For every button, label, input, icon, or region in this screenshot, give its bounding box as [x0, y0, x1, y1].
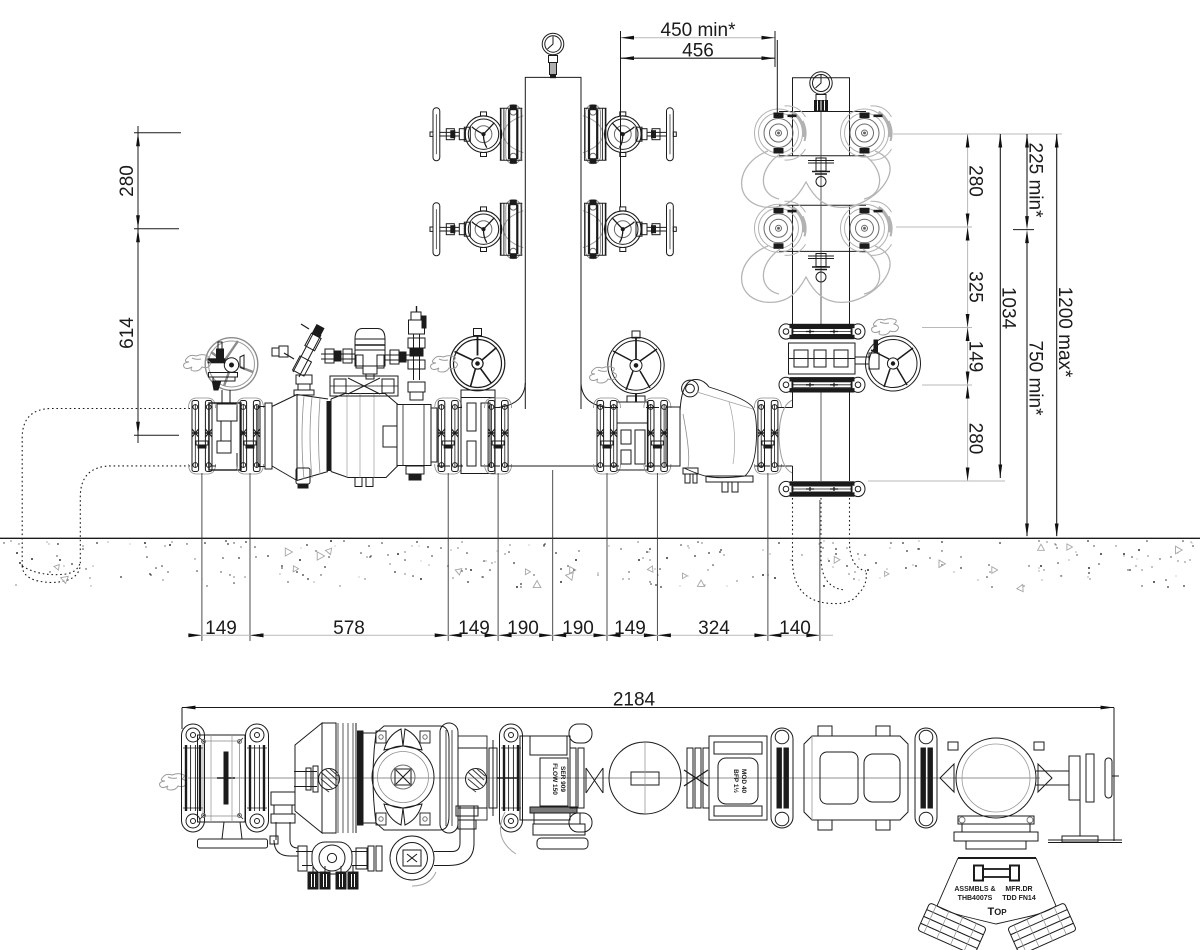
standpipe (right vertical assembly) shell [779, 111, 866, 481]
dimension 2184 (plan overall) [182, 690, 1114, 842]
right dimension 280 (bottom) [965, 385, 986, 481]
center riser pipe [525, 77, 581, 409]
svg-text:280: 280 [117, 165, 138, 197]
svg-text:MFR.DR: MFR.DR [1005, 886, 1032, 893]
svg-text:280: 280 [965, 165, 986, 197]
standpipe gate valve V4 body [789, 343, 856, 374]
bottom dimension 578 [250, 618, 448, 639]
plan tee with union stack and elbow down (sense line) [270, 792, 298, 856]
svg-text:190: 190 [507, 618, 539, 639]
riser base bell right [581, 383, 607, 408]
left dimension 280 (vertical) [117, 126, 181, 443]
ground stipple triangles [53, 544, 1182, 592]
dimension 450 min* (top) [621, 20, 776, 41]
standpipe coupling VC3 [779, 481, 865, 496]
svg-text:456: 456 [682, 41, 714, 62]
backflow preventer body (RP device) [258, 394, 437, 489]
svg-text:2184: 2184 [613, 690, 656, 711]
hose cap H4 [841, 201, 892, 255]
plan RP outlet flange disc [440, 723, 458, 833]
svg-text:225 min*: 225 min* [1025, 143, 1046, 219]
svg-text:324: 324 [698, 618, 730, 639]
main line grooved coupling C7 [754, 398, 781, 474]
OS&Y valve V2 handwheel [450, 329, 505, 391]
plan gate valve body [804, 726, 908, 830]
bleed valve B2 on standpipe [808, 254, 834, 283]
bottom dimension 190 (second) [553, 618, 607, 639]
ribbed pad right [1008, 903, 1077, 950]
ground stipple dots [3, 540, 1193, 588]
bleed valve B1 on standpipe [808, 158, 834, 187]
weed mark at valve V2 [431, 356, 458, 372]
plan valve B body with nameplate [709, 736, 767, 820]
bottom dimension 149 (third) [607, 618, 657, 639]
bottom dimension 149 (first) [188, 618, 263, 639]
svg-text:1034: 1034 [998, 287, 1019, 330]
dimension 456 [621, 31, 778, 207]
bottom extension lines [202, 470, 820, 641]
standpipe centerline [820, 112, 822, 481]
right extension lines (grey) [868, 134, 1062, 481]
ball valve V1 handwheel [205, 338, 258, 403]
bottom dimension 140 [768, 618, 820, 639]
hose loop row2 (grey) [742, 246, 890, 302]
plan butterfly valve circle [569, 724, 681, 832]
plan check valve body with tap [458, 736, 487, 820]
SECTION: ELEVATION VIEW [22, 33, 920, 603]
left buried approach pipe (dotted) [22, 409, 190, 583]
standpipe coupling VC1 [779, 324, 865, 339]
hose loop row1 (grey) [742, 151, 890, 207]
plan riser coupling stack [954, 816, 1038, 849]
plan valve A tray stack [500, 807, 588, 854]
main line grooved coupling C6 [644, 398, 671, 474]
plan flange stack [684, 748, 709, 808]
branch valve VB4 (lower right of riser) [583, 200, 676, 259]
main line grooved coupling C4 [485, 398, 512, 474]
plan base bracket [1048, 840, 1122, 843]
elbow into standpipe [778, 400, 793, 473]
right dimension 149 [965, 328, 986, 386]
main line grooved coupling C2 [237, 398, 264, 474]
butterfly valve V3 body [617, 402, 648, 470]
main line grooved coupling C5 [594, 398, 621, 474]
right dimension 325 [965, 227, 986, 328]
vertical trim column with unions [408, 306, 426, 400]
svg-text:450 min*: 450 min* [661, 20, 737, 41]
trim top ball valve with lever [409, 320, 425, 334]
gauge frame on standpipe [793, 78, 850, 111]
hose cap H2 [841, 106, 892, 160]
svg-text:149: 149 [458, 618, 490, 639]
svg-text:149: 149 [614, 618, 646, 639]
svg-text:ASSMBLS &: ASSMBLS & [954, 886, 995, 893]
bottom dimension 324 [657, 618, 768, 639]
SECTION: GROUND [0, 538, 1200, 591]
plan capsule flange P6 [915, 728, 937, 828]
branch valve VB3 (lower left of riser) [430, 200, 523, 259]
svg-text:140: 140 [779, 618, 811, 639]
main line grooved coupling C3 [435, 398, 462, 474]
sense line piping below plan [296, 806, 478, 889]
svg-text:TOP: TOP [987, 906, 1007, 918]
plan RP device body [295, 723, 376, 833]
riser base bell left [499, 383, 526, 408]
SECTION: PLAN VIEW [160, 723, 1122, 950]
svg-text:SER 909: SER 909 [559, 766, 566, 792]
pilot trim: water meter [355, 329, 385, 380]
plan centerline [188, 777, 1040, 779]
weed mark left of plan [160, 774, 187, 790]
main pipe under riser tee [458, 407, 659, 409]
plan capsule flange P5 [771, 728, 793, 828]
plan support skirt (pentagon) [937, 858, 1056, 924]
ball valve V1 body [209, 403, 241, 470]
plan side tap with hex nut [294, 766, 340, 792]
plan standpipe circle [940, 738, 1052, 818]
right dimension 225 min* [1013, 134, 1046, 230]
plan coupling P1 [182, 724, 205, 832]
svg-text:FLOW 150: FLOW 150 [551, 763, 558, 795]
svg-text:750 min*: 750 min* [1025, 341, 1046, 417]
standpipe coupling VC2 [779, 377, 865, 392]
svg-text:149: 149 [205, 618, 237, 639]
weed mark at valve V4 [872, 319, 899, 335]
pilot trim: angled strainer pipe [272, 324, 324, 395]
buried standpipe continuation (dotted) [793, 498, 867, 604]
ribbed pad left [918, 903, 987, 950]
plan RP dome and wings [372, 726, 449, 830]
right dimension 750 min* [1025, 230, 1046, 537]
butterfly valve V3 handwheel [608, 331, 664, 402]
plan stem, plate and handwheel edge [1036, 754, 1119, 842]
weed mark at valve V1 [184, 355, 211, 371]
skirt nameplate text [954, 886, 1035, 918]
branch valve VB2 (upper right of riser) [583, 105, 676, 164]
right dimension 1200 max* [1054, 134, 1075, 537]
svg-text:THB4007S: THB4007S [958, 895, 993, 902]
svg-text:MOD 40: MOD 40 [740, 769, 747, 794]
weed mark at valve V3 [590, 367, 617, 383]
plan ball valve V1 body [198, 735, 246, 822]
plan wafer plate [489, 740, 517, 816]
svg-text:280: 280 [965, 423, 986, 455]
branch valve VB1 (upper left of riser) [430, 105, 523, 164]
plan coupling P4 [500, 724, 523, 832]
main line grooved coupling C1 [189, 398, 216, 474]
plan ball valve support pedestal [198, 822, 268, 848]
right dimension 1034 [998, 134, 1019, 478]
svg-text:190: 190 [562, 618, 594, 639]
svg-text:325: 325 [965, 271, 986, 303]
SECTION: DIMENSIONS [117, 20, 1114, 841]
pilot block [330, 376, 398, 396]
bottom dimension 149 (second) [448, 618, 498, 639]
svg-text:578: 578 [333, 618, 365, 639]
swing check valve CV1 [666, 379, 757, 492]
right dimension 280 (top) [965, 134, 986, 481]
OS&Y valve V2 body [461, 390, 495, 474]
svg-text:614: 614 [117, 317, 138, 349]
left dimension 614 (vertical) [117, 229, 140, 435]
standpipe gate valve V4 stem and handwheel [855, 336, 921, 391]
svg-text:1200 max*: 1200 max* [1054, 287, 1075, 378]
plan valve A body with nameplate [520, 736, 570, 820]
plan flange pair with bowtie [570, 748, 603, 808]
bottom dimension 190 (first) [498, 618, 553, 639]
hose cap H3 [755, 201, 806, 255]
pilot trim: connecting unions [321, 349, 410, 364]
bottom dimension line [188, 634, 833, 636]
svg-text:TDD FN14: TDD FN14 [1002, 895, 1036, 902]
svg-text:BFP 1½: BFP 1½ [732, 769, 740, 793]
svg-text:149: 149 [965, 341, 986, 373]
hose cap H1 [755, 106, 806, 160]
ground line [0, 537, 1200, 539]
plan coupling P2 [246, 724, 269, 832]
pressure gauge PI1 on riser [542, 33, 564, 77]
vertical drop below strainer [296, 375, 312, 384]
pressure gauge PI2 on standpipe [810, 72, 832, 111]
